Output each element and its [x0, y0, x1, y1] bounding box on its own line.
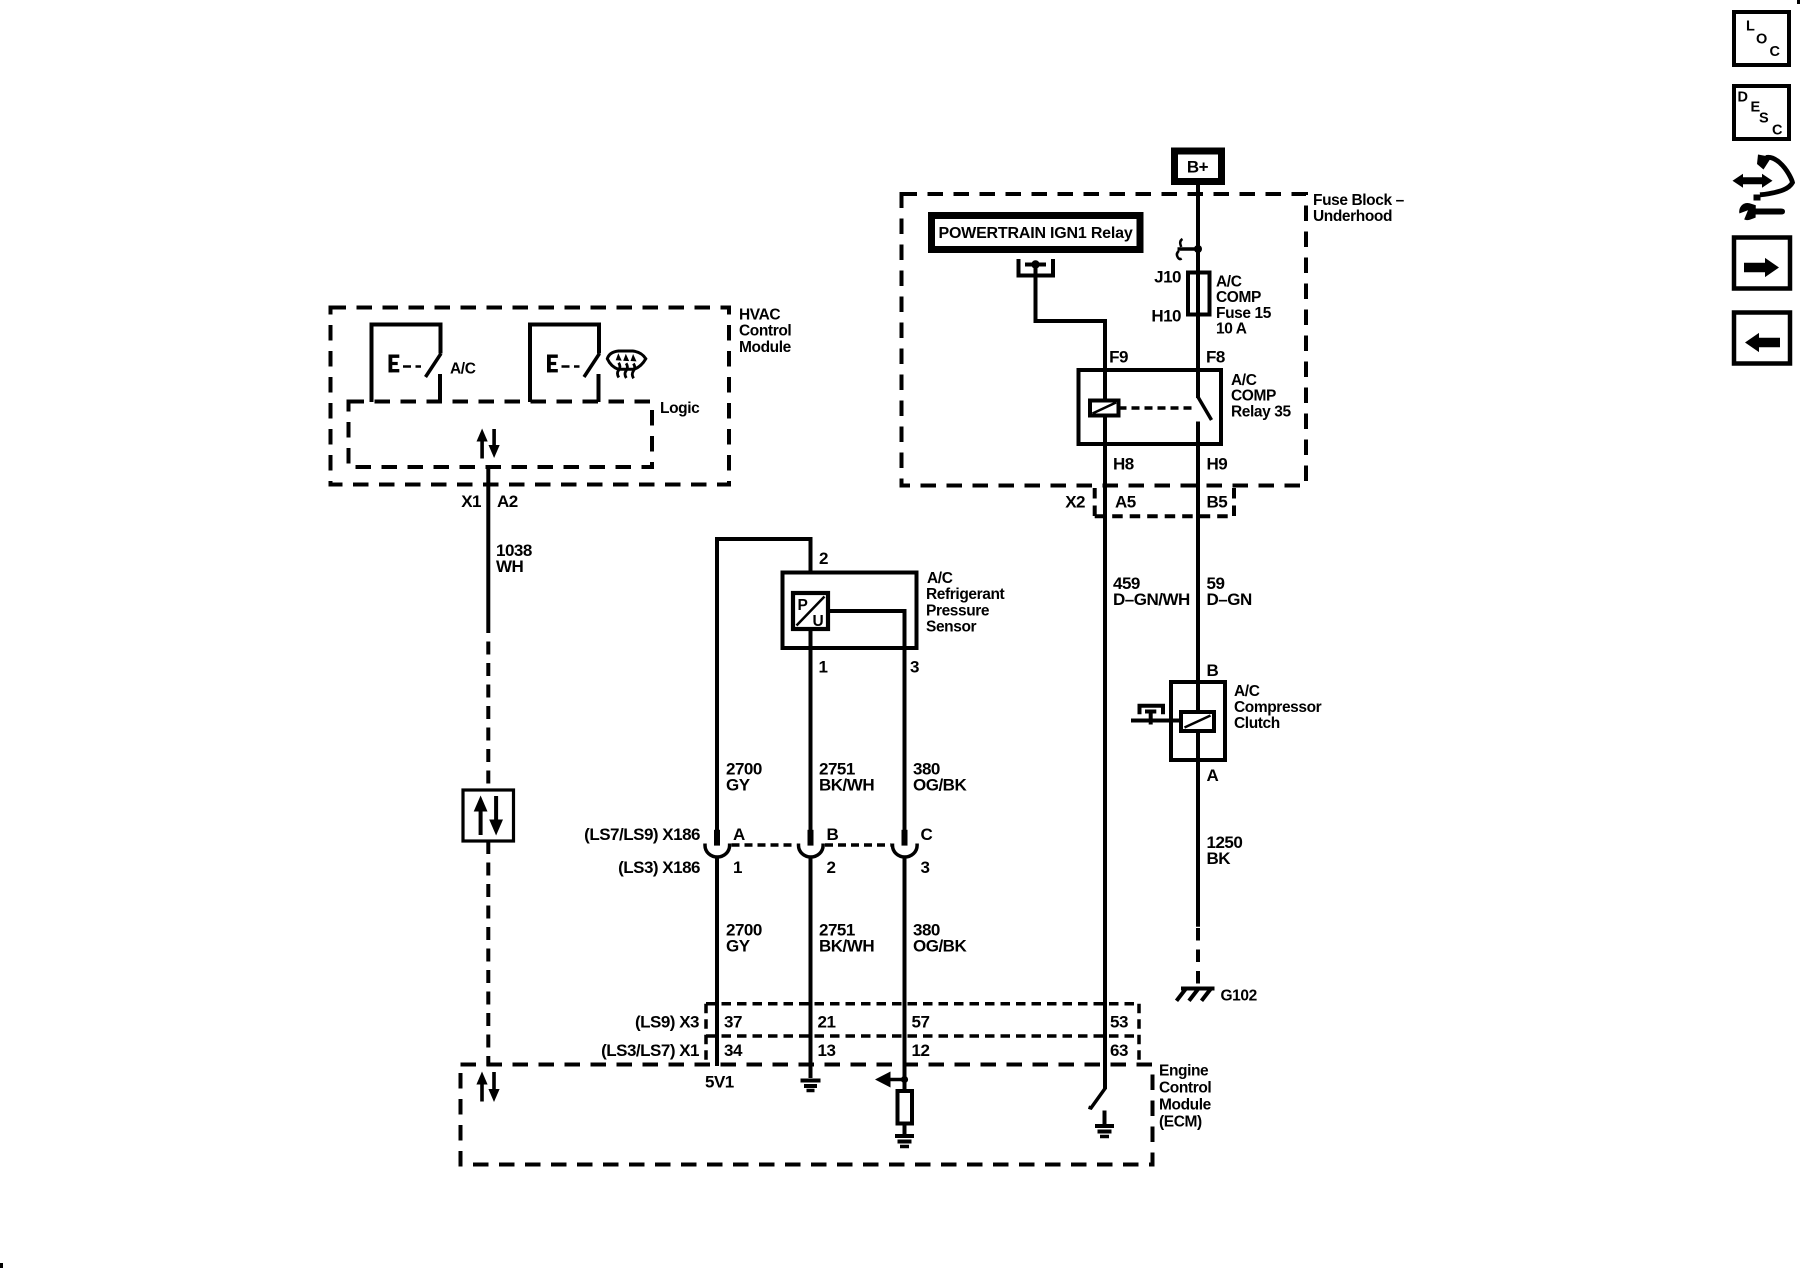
svg-text:(ECM): (ECM)	[1159, 1114, 1202, 1131]
svg-text:C: C	[1770, 44, 1781, 60]
svg-text:1: 1	[819, 658, 828, 677]
svg-text:BK/WH: BK/WH	[819, 937, 874, 956]
svg-text:(LS3) X186: (LS3) X186	[618, 858, 700, 877]
svg-text:(LS7/LS9) X186: (LS7/LS9) X186	[584, 825, 700, 844]
svg-text:A/C: A/C	[1234, 683, 1260, 700]
svg-text:D: D	[1738, 90, 1748, 106]
svg-text:X2: X2	[1065, 493, 1085, 512]
svg-text:10 A: 10 A	[1216, 321, 1247, 338]
svg-text:Engine: Engine	[1159, 1063, 1209, 1080]
svg-text:13: 13	[818, 1041, 836, 1060]
svg-text:A/C: A/C	[450, 361, 476, 378]
svg-text:S: S	[1759, 111, 1769, 127]
svg-text:U: U	[813, 613, 824, 630]
svg-text:F9: F9	[1109, 348, 1128, 367]
svg-text:A5: A5	[1115, 493, 1136, 512]
svg-text:B: B	[1207, 661, 1219, 680]
svg-text:O: O	[1756, 32, 1767, 48]
svg-text:POWERTRAIN IGN1 Relay: POWERTRAIN IGN1 Relay	[938, 225, 1132, 242]
svg-text:Fuse 15: Fuse 15	[1216, 305, 1272, 322]
svg-text:Module: Module	[739, 339, 792, 356]
svg-text:B+: B+	[1187, 158, 1209, 177]
svg-text:53: 53	[1110, 1013, 1128, 1032]
svg-text:HVAC: HVAC	[739, 307, 780, 324]
svg-text:21: 21	[818, 1013, 836, 1032]
svg-text:BK/WH: BK/WH	[819, 776, 874, 795]
svg-text:Control: Control	[1159, 1080, 1211, 1097]
svg-text:Relay 35: Relay 35	[1231, 403, 1291, 420]
svg-text:Pressure: Pressure	[926, 603, 990, 620]
svg-text:OG/BK: OG/BK	[913, 776, 967, 795]
svg-text:B: B	[827, 825, 839, 844]
svg-text:2: 2	[819, 549, 828, 568]
svg-text:3: 3	[921, 858, 930, 877]
svg-text:B5: B5	[1207, 493, 1228, 512]
svg-text:F8: F8	[1206, 348, 1225, 367]
svg-text:Refrigerant: Refrigerant	[926, 586, 1005, 603]
svg-text:GY: GY	[726, 776, 751, 795]
svg-text:(LS3/LS7) X1: (LS3/LS7) X1	[601, 1041, 699, 1060]
svg-text:63: 63	[1110, 1041, 1128, 1060]
svg-text:WH: WH	[496, 557, 524, 576]
svg-text:J10: J10	[1154, 268, 1181, 287]
svg-text:2: 2	[827, 858, 836, 877]
svg-text:X1: X1	[461, 492, 481, 511]
svg-text:A: A	[733, 825, 745, 844]
svg-text:57: 57	[912, 1013, 930, 1032]
svg-text:OG/BK: OG/BK	[913, 937, 967, 956]
svg-text:A/C: A/C	[927, 570, 953, 587]
svg-text:Module: Module	[1159, 1097, 1212, 1114]
svg-text:G102: G102	[1221, 988, 1257, 1005]
svg-text:D–GN: D–GN	[1207, 590, 1252, 609]
svg-text:Fuse Block –: Fuse Block –	[1313, 192, 1405, 209]
svg-text:P: P	[798, 597, 808, 614]
svg-text:12: 12	[912, 1041, 930, 1060]
svg-text:1: 1	[733, 858, 742, 877]
svg-text:H10: H10	[1151, 307, 1181, 326]
svg-text:C: C	[1772, 122, 1783, 138]
svg-text:34: 34	[724, 1041, 743, 1060]
svg-text:A/C: A/C	[1231, 372, 1257, 389]
svg-text:H9: H9	[1207, 455, 1228, 474]
svg-text:H8: H8	[1113, 455, 1134, 474]
svg-text:D–GN/WH: D–GN/WH	[1113, 590, 1190, 609]
svg-text:37: 37	[724, 1013, 742, 1032]
svg-text:COMP: COMP	[1216, 289, 1261, 306]
svg-text:GY: GY	[726, 937, 751, 956]
svg-text:L: L	[1746, 19, 1755, 35]
svg-text:Clutch: Clutch	[1234, 715, 1280, 732]
svg-text:A/C: A/C	[1216, 274, 1242, 291]
svg-text:Logic: Logic	[660, 400, 700, 417]
svg-text:BK: BK	[1207, 849, 1232, 868]
svg-text:Underhood: Underhood	[1313, 208, 1392, 225]
svg-text:COMP: COMP	[1231, 388, 1276, 405]
svg-text:Sensor: Sensor	[926, 619, 977, 636]
svg-text:3: 3	[910, 658, 919, 677]
svg-text:A: A	[1207, 766, 1219, 785]
svg-text:(LS9) X3: (LS9) X3	[635, 1013, 699, 1032]
svg-text:C: C	[921, 825, 933, 844]
svg-text:Compressor: Compressor	[1234, 699, 1322, 716]
svg-text:A2: A2	[497, 492, 518, 511]
svg-text:Control: Control	[739, 323, 791, 340]
svg-text:5V1: 5V1	[705, 1073, 734, 1092]
